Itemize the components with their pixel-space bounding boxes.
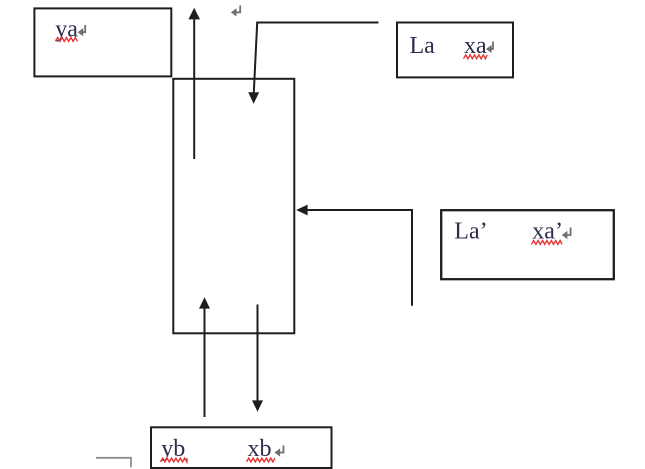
squiggle under xb: [247, 458, 276, 462]
box ya (top-left): [34, 8, 171, 76]
gray partial box (bottom-left corner): [96, 458, 131, 467]
squiggle under ya: [56, 38, 78, 42]
svg-text:La’: La’: [454, 219, 487, 245]
box yb xb (bottom): [151, 427, 332, 468]
arrow down out of column bottom: [252, 305, 263, 412]
label yb: [161, 436, 185, 462]
svg-text:yb: yb: [161, 436, 185, 462]
squiggle under xa': [532, 241, 563, 245]
svg-text:xb: xb: [248, 436, 272, 462]
label xa': [532, 219, 563, 245]
return mark floating top: [231, 6, 240, 17]
box La' xa' (right-middle): [441, 210, 614, 279]
squiggle under xa: [464, 55, 488, 59]
arrow up into column bottom: [199, 297, 210, 417]
arrow up (vapor out, tall): [188, 8, 200, 159]
column (tall rectangle): [173, 79, 294, 333]
return mark after ya: [78, 25, 86, 36]
arrow feed into column top (elbow from La xa): [248, 23, 378, 104]
label La': [454, 219, 487, 245]
label ya: [55, 17, 78, 43]
return mark after xa': [562, 228, 571, 240]
label xa: [464, 33, 487, 59]
arrow feed into column right side (elbow): [296, 205, 412, 306]
box La xa (top-right): [397, 23, 513, 78]
label La: [410, 33, 436, 59]
return mark after xa: [486, 42, 493, 54]
svg-text:La: La: [410, 33, 436, 59]
return mark after xb: [275, 446, 284, 457]
label xb: [248, 436, 272, 462]
squiggle under yb: [161, 458, 188, 462]
